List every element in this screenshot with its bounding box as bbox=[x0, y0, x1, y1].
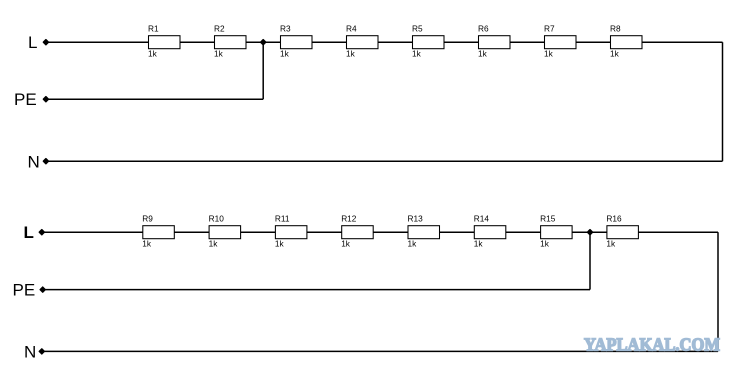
svg-text:1k: 1k bbox=[606, 239, 616, 249]
wire: bottom junction vertical drop to PE bbox=[589, 232, 591, 289]
svg-text:R13: R13 bbox=[408, 214, 424, 224]
svg-text:R14: R14 bbox=[474, 214, 490, 224]
wire: top L rail bbox=[46, 41, 723, 43]
resistor R9 bbox=[142, 214, 174, 249]
svg-text:1k: 1k bbox=[544, 49, 554, 59]
svg-text:1k: 1k bbox=[209, 239, 219, 249]
svg-text:R3: R3 bbox=[280, 24, 291, 34]
svg-text:1k: 1k bbox=[275, 239, 285, 249]
svg-text:R12: R12 bbox=[341, 214, 357, 224]
wire: top right vertical drop to N bbox=[722, 42, 724, 161]
wire: bottom L rail bbox=[42, 231, 718, 233]
svg-text:1k: 1k bbox=[346, 49, 356, 59]
wire: bottom right vertical drop to N bbox=[717, 232, 719, 351]
svg-text:1k: 1k bbox=[214, 49, 224, 59]
svg-text:1k: 1k bbox=[610, 49, 620, 59]
wire: top PE rail bbox=[46, 98, 263, 100]
svg-text:R5: R5 bbox=[412, 24, 423, 34]
wire: top N rail bbox=[46, 160, 723, 162]
resistor R10 bbox=[209, 214, 241, 249]
svg-text:1k: 1k bbox=[408, 239, 418, 249]
svg-text:1k: 1k bbox=[142, 239, 152, 249]
resistor R5 bbox=[412, 24, 444, 59]
resistor R1 bbox=[148, 24, 180, 59]
resistor R15 bbox=[540, 214, 572, 249]
resistor R8 bbox=[610, 24, 642, 59]
svg-text:L: L bbox=[24, 223, 34, 242]
svg-text:R16: R16 bbox=[606, 214, 622, 224]
resistor R4 bbox=[346, 24, 378, 59]
wire: bottom PE rail bbox=[43, 289, 590, 291]
svg-text:PE: PE bbox=[14, 90, 37, 109]
node: top L terminal bbox=[43, 40, 48, 45]
svg-text:R9: R9 bbox=[142, 214, 153, 224]
svg-text:1k: 1k bbox=[148, 49, 158, 59]
resistor R14 bbox=[474, 214, 506, 249]
svg-text:R1: R1 bbox=[148, 24, 159, 34]
node: bottom N terminal bbox=[39, 349, 44, 354]
svg-text:N: N bbox=[28, 152, 40, 171]
resistor R12 bbox=[341, 214, 373, 249]
junction node after R15 bbox=[588, 230, 593, 235]
svg-text:R10: R10 bbox=[209, 214, 225, 224]
svg-text:R15: R15 bbox=[540, 214, 556, 224]
svg-text:R4: R4 bbox=[346, 24, 357, 34]
node: top N terminal bbox=[43, 159, 48, 164]
node: bottom L terminal bbox=[39, 230, 44, 235]
resistor R11 bbox=[275, 214, 307, 249]
node: top PE terminal bbox=[43, 97, 48, 102]
svg-text:R2: R2 bbox=[214, 24, 225, 34]
resistor R16 bbox=[606, 214, 638, 249]
svg-text:1k: 1k bbox=[540, 239, 550, 249]
svg-text:R7: R7 bbox=[544, 24, 555, 34]
svg-text:PE: PE bbox=[13, 281, 36, 300]
svg-text:1k: 1k bbox=[474, 239, 484, 249]
svg-text:1k: 1k bbox=[412, 49, 422, 59]
svg-text:1k: 1k bbox=[341, 239, 351, 249]
svg-text:1k: 1k bbox=[280, 49, 290, 59]
node: bottom PE terminal bbox=[40, 287, 45, 292]
resistor R6 bbox=[478, 24, 510, 59]
wire: bottom N rail bbox=[42, 350, 718, 352]
svg-text:R8: R8 bbox=[610, 24, 621, 34]
wire: top junction vertical drop to PE bbox=[262, 42, 264, 99]
resistor R7 bbox=[544, 24, 576, 59]
svg-text:R6: R6 bbox=[478, 24, 489, 34]
svg-text:N: N bbox=[24, 342, 36, 361]
resistor R2 bbox=[214, 24, 246, 59]
svg-text:YAPLAKAL.COM: YAPLAKAL.COM bbox=[584, 334, 720, 354]
svg-text:R11: R11 bbox=[275, 214, 290, 224]
resistor R3 bbox=[280, 24, 312, 59]
svg-text:1k: 1k bbox=[478, 49, 488, 59]
resistor R13 bbox=[408, 214, 440, 249]
junction node after R2 bbox=[261, 40, 266, 45]
svg-text:L: L bbox=[28, 33, 37, 52]
